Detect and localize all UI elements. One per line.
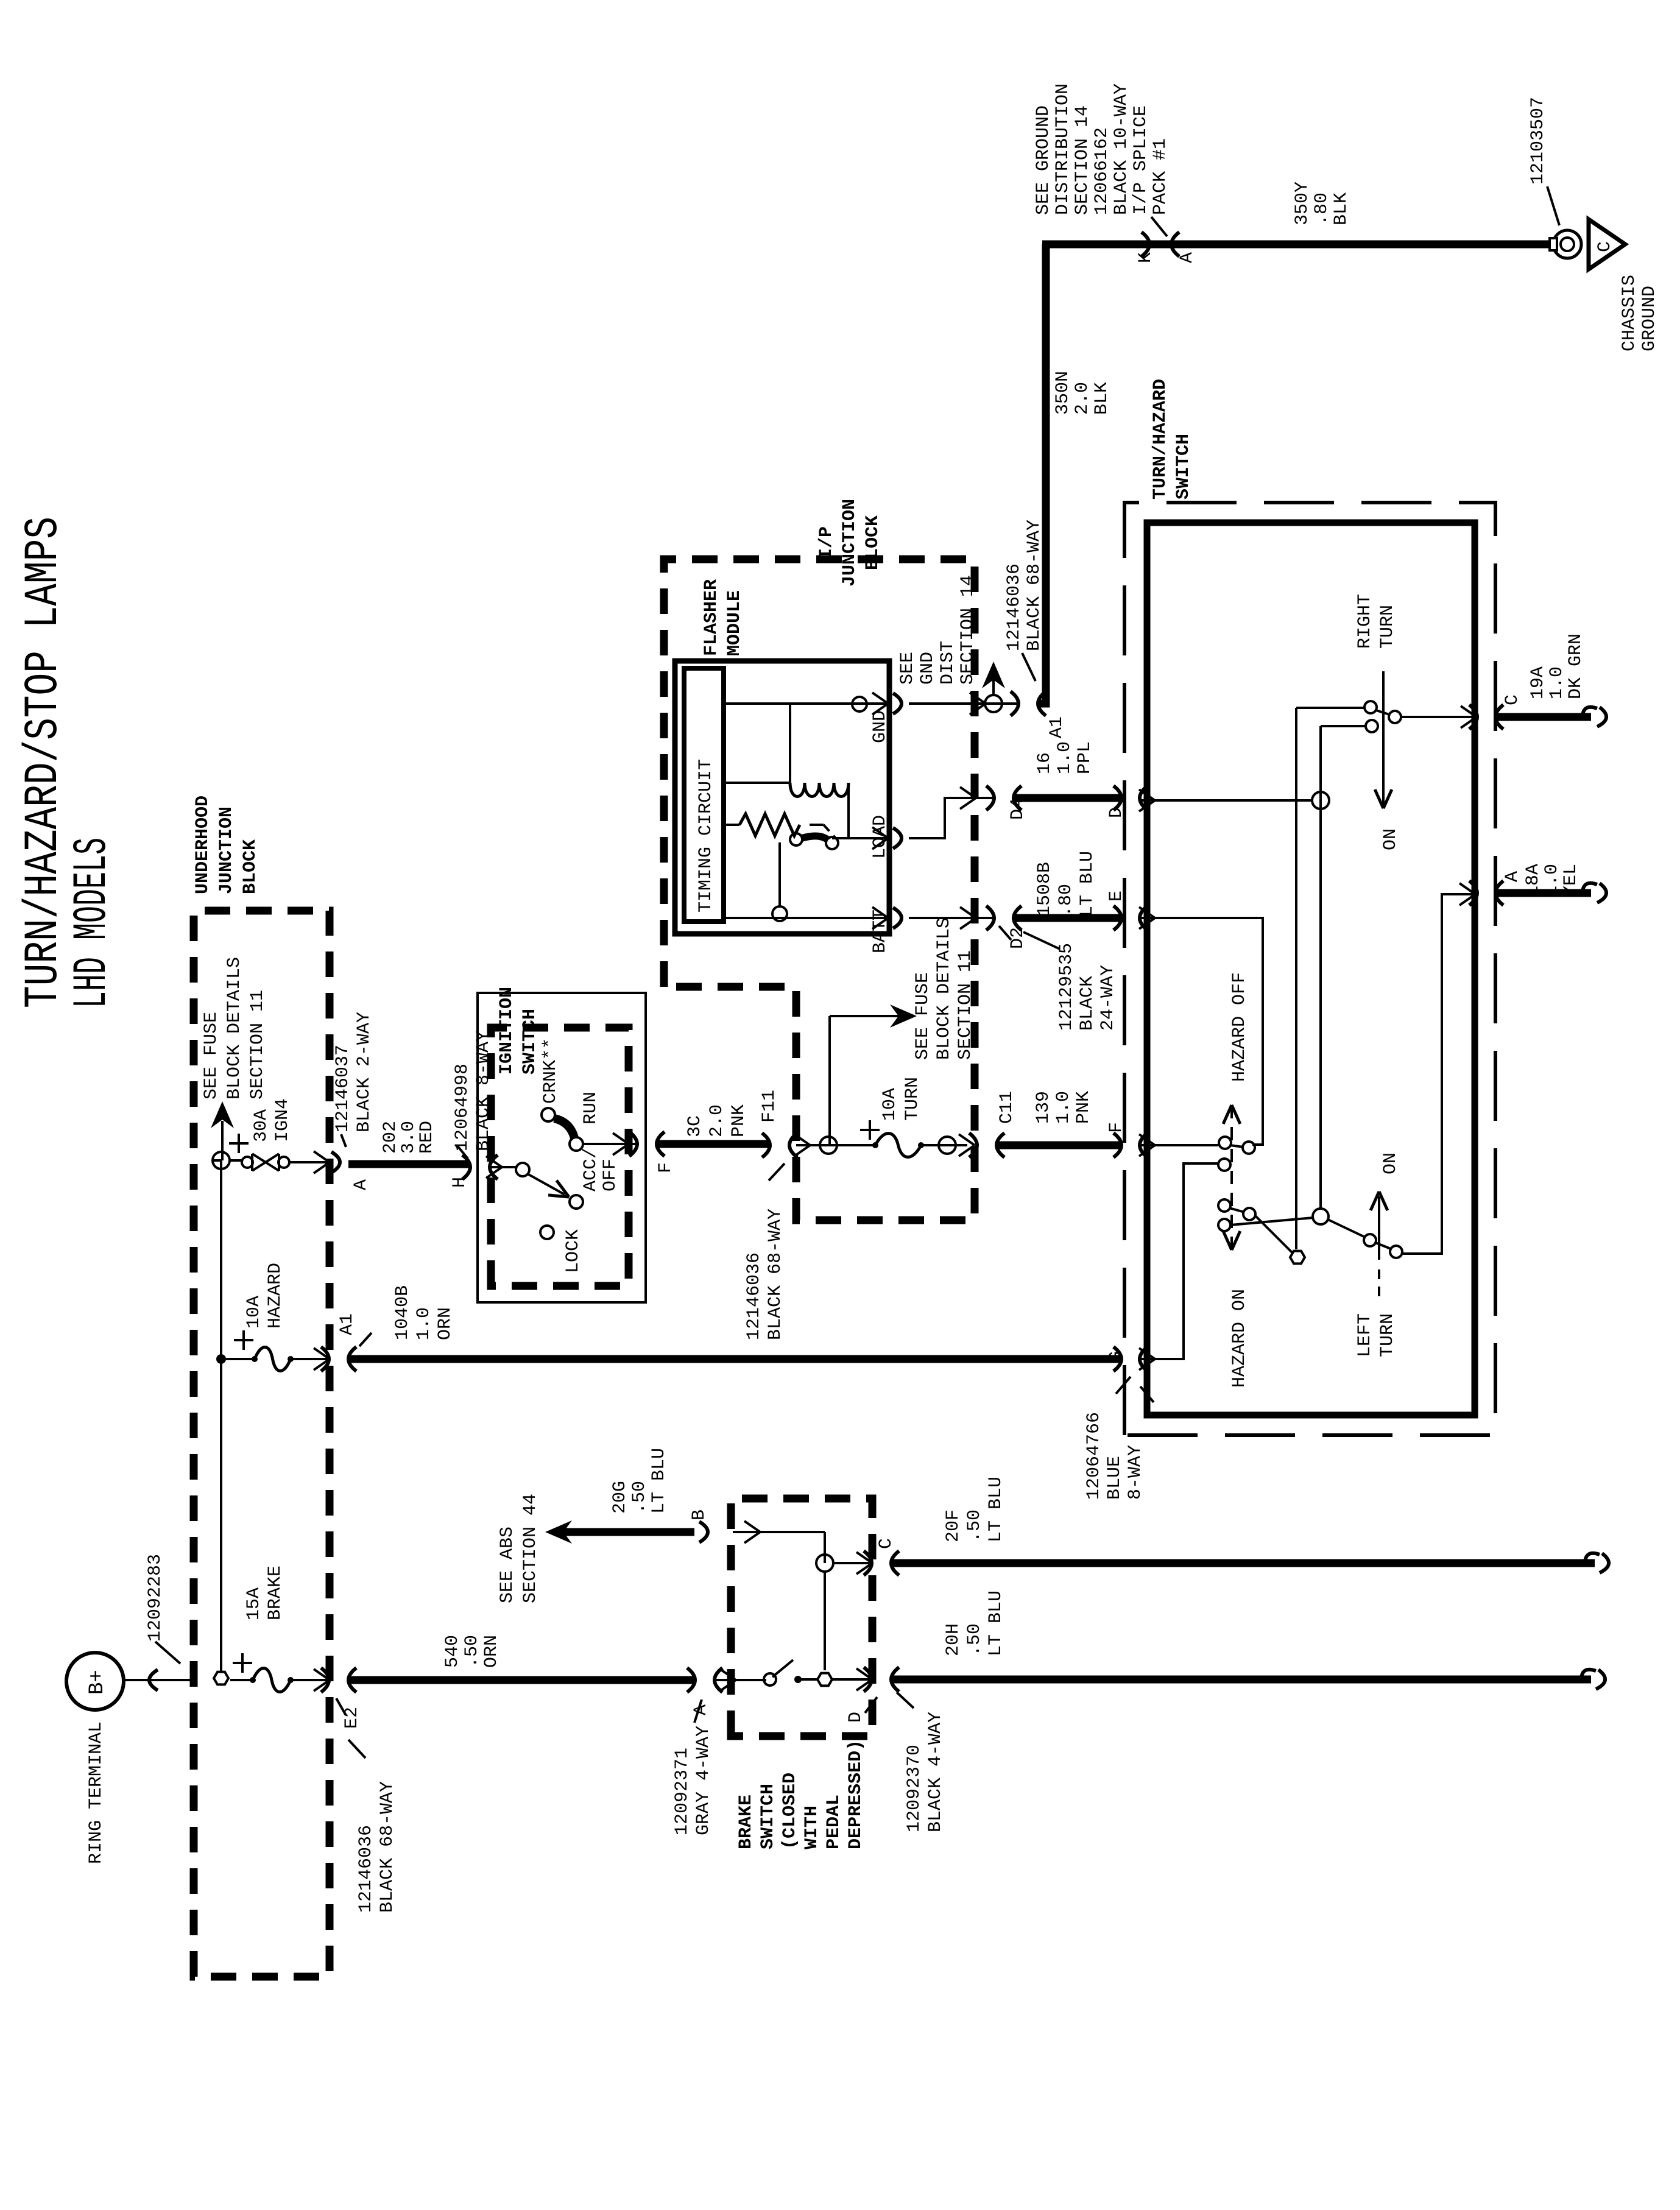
label 30A IGN4 bbox=[251, 1098, 293, 1142]
wire 139 PNK bbox=[997, 1142, 1121, 1149]
wire F internal bbox=[1139, 1134, 1218, 1156]
splice hexagon turn feed bbox=[1255, 708, 1305, 1263]
svg-text:10A: 10A bbox=[880, 1088, 900, 1121]
connector C11 bbox=[969, 1091, 1017, 1157]
label 139 1.0 PNK bbox=[1033, 1091, 1094, 1124]
ignition switch outer box bbox=[478, 993, 646, 1302]
label 12092371 GRAY 4-WAY bbox=[672, 1700, 714, 1835]
svg-text:SECTION 11: SECTION 11 bbox=[955, 950, 976, 1060]
svg-text:ORN: ORN bbox=[435, 1307, 456, 1340]
label TIMING CIRCUIT bbox=[696, 759, 716, 913]
svg-text:2.0: 2.0 bbox=[1072, 382, 1093, 415]
svg-text:TURN/HAZARD: TURN/HAZARD bbox=[1150, 379, 1171, 500]
svg-text:.50: .50 bbox=[462, 1635, 482, 1668]
svg-text:12129535: 12129535 bbox=[1056, 943, 1077, 1031]
svg-text:UNDERHOOD: UNDERHOOD bbox=[192, 796, 213, 894]
svg-text:1.0: 1.0 bbox=[414, 1307, 434, 1340]
wire fuse to C11 bbox=[921, 1134, 975, 1156]
svg-text:E2: E2 bbox=[342, 1707, 362, 1729]
label 350Y .80 BLK bbox=[1292, 182, 1352, 225]
flasher contact bbox=[790, 833, 838, 849]
svg-text:350Y: 350Y bbox=[1292, 182, 1313, 225]
fuse 30A IGN4 maxifuse bbox=[229, 1134, 329, 1171]
arrow to fuse block details bbox=[211, 1101, 234, 1160]
svg-text:.80: .80 bbox=[1056, 884, 1076, 917]
label I/P JUNCTION BLOCK bbox=[816, 499, 883, 587]
svg-text:LT BLU: LT BLU bbox=[986, 1477, 1006, 1542]
wire 19A DK GRN bbox=[1496, 707, 1606, 727]
connector ign4 out bbox=[331, 1152, 372, 1190]
connector F switch bbox=[1106, 1122, 1148, 1157]
svg-text:TURN: TURN bbox=[1377, 605, 1398, 649]
svg-text:C: C bbox=[1595, 241, 1615, 252]
svg-text:I/P: I/P bbox=[816, 526, 837, 559]
hazard contacts bbox=[1218, 1137, 1255, 1231]
svg-text:12066162: 12066162 bbox=[1092, 127, 1112, 215]
svg-text:K: K bbox=[1135, 252, 1156, 263]
label 12092370 BLACK 4-WAY bbox=[897, 1692, 946, 1832]
wire 20G to ABS bbox=[563, 1528, 694, 1536]
brake switch contact bbox=[764, 1660, 872, 1686]
flasher pin labels bbox=[870, 710, 891, 953]
svg-text:TIMING CIRCUIT: TIMING CIRCUIT bbox=[696, 759, 716, 913]
svg-text:BRAKE: BRAKE bbox=[265, 1566, 286, 1620]
svg-text:BLOCK: BLOCK bbox=[240, 839, 261, 894]
svg-text:12092370: 12092370 bbox=[904, 1745, 925, 1832]
svg-text:SEE FUSE: SEE FUSE bbox=[912, 972, 933, 1060]
svg-text:C: C bbox=[1502, 694, 1523, 705]
svg-text:A1: A1 bbox=[1046, 716, 1067, 738]
svg-text:BRAKE: BRAKE bbox=[736, 1795, 757, 1849]
label RUN bbox=[581, 1092, 601, 1124]
label 20F .50 LT BLU bbox=[943, 1477, 1006, 1542]
svg-text:SEE ABS: SEE ABS bbox=[497, 1527, 518, 1603]
svg-text:F: F bbox=[655, 1162, 676, 1173]
svg-text:ON: ON bbox=[1380, 828, 1401, 850]
svg-text:BATT: BATT bbox=[870, 909, 891, 953]
svg-text:SWITCH: SWITCH bbox=[1173, 434, 1194, 500]
svg-text:B: B bbox=[689, 1509, 710, 1520]
svg-text:E: E bbox=[1106, 891, 1127, 902]
flasher connector gnd bbox=[893, 693, 1018, 715]
svg-text:1.0: 1.0 bbox=[1542, 864, 1562, 897]
svg-text:12064766: 12064766 bbox=[1084, 1412, 1104, 1500]
svg-text:LOAD: LOAD bbox=[870, 815, 891, 859]
connector D4 bbox=[986, 786, 1028, 820]
label FLASHER MODULE bbox=[701, 579, 745, 656]
label 3C 2.0 PNK bbox=[685, 1104, 749, 1137]
svg-text:SECTION 14: SECTION 14 bbox=[958, 575, 978, 685]
wire B+ to junction block bbox=[124, 1670, 195, 1690]
svg-text:ON: ON bbox=[1380, 1153, 1401, 1174]
svg-text:.80: .80 bbox=[1311, 192, 1332, 225]
svg-text:HAZARD OFF: HAZARD OFF bbox=[1229, 972, 1250, 1082]
connector C switch bbox=[1469, 694, 1523, 729]
wire D junction long bbox=[1312, 726, 1329, 1209]
hazard link arrow bbox=[1223, 1105, 1240, 1250]
ignition pivot bbox=[486, 1156, 529, 1178]
svg-text:12092371: 12092371 bbox=[672, 1748, 693, 1835]
svg-text:8-WAY: 8-WAY bbox=[1125, 1445, 1146, 1500]
svg-text:20H: 20H bbox=[943, 1623, 964, 1656]
svg-text:.50: .50 bbox=[964, 1623, 985, 1656]
svg-text:LT BLU: LT BLU bbox=[1077, 851, 1098, 917]
svg-text:CHASSIS: CHASSIS bbox=[1619, 275, 1640, 351]
left turn arrow bbox=[1371, 1153, 1401, 1296]
label 12103507 bbox=[1528, 97, 1559, 225]
svg-text:SECTION 44: SECTION 44 bbox=[520, 1494, 541, 1603]
svg-text:10A: 10A bbox=[244, 1296, 264, 1329]
svg-text:C: C bbox=[876, 1538, 897, 1549]
battery B+ ring terminal bbox=[66, 1653, 124, 1710]
flasher resistor bbox=[724, 814, 836, 838]
label SEE ABS SECTION 44 bbox=[497, 1494, 541, 1603]
svg-text:20F: 20F bbox=[943, 1509, 964, 1542]
svg-text:HAZARD: HAZARD bbox=[265, 1263, 286, 1329]
svg-text:.50: .50 bbox=[629, 1481, 650, 1514]
svg-text:GND: GND bbox=[917, 652, 938, 685]
svg-text:A: A bbox=[351, 1179, 372, 1190]
label 19A 1.0 DK GRN bbox=[1528, 634, 1586, 699]
svg-text:BLK: BLK bbox=[1331, 192, 1352, 225]
ignition LOCK contact bbox=[540, 1226, 554, 1239]
svg-text:12146036: 12146036 bbox=[1004, 563, 1025, 651]
svg-text:C11: C11 bbox=[997, 1091, 1017, 1124]
svg-text:TURN: TURN bbox=[902, 1077, 923, 1121]
fuse 10A HAZARD bbox=[234, 1330, 329, 1371]
svg-text:ACC/: ACC/ bbox=[581, 1148, 601, 1191]
label 18A 1.0 YEL bbox=[1523, 864, 1581, 897]
svg-text:A: A bbox=[1177, 252, 1198, 263]
svg-text:PPL: PPL bbox=[1075, 741, 1095, 774]
label 1508B .80 LT BLU bbox=[1034, 851, 1098, 917]
label 12129535 BLACK 24-WAY bbox=[1023, 932, 1118, 1031]
bus wire bbox=[220, 1160, 222, 1678]
right turn arrow bbox=[1375, 671, 1401, 850]
svg-text:12146036: 12146036 bbox=[744, 1252, 764, 1340]
wire 540 ORN bbox=[348, 1676, 694, 1684]
svg-text:OFF: OFF bbox=[600, 1159, 621, 1191]
svg-text:H: H bbox=[450, 1177, 470, 1188]
label 12064998 BLACK 8-WAY bbox=[452, 1031, 494, 1151]
junction circle left turn bbox=[1230, 1209, 1329, 1225]
arrow SEE GND DIST bbox=[982, 662, 1005, 695]
svg-text:SEE FUSE: SEE FUSE bbox=[201, 1012, 222, 1100]
turn hazard switch dashed box bbox=[1124, 503, 1495, 1435]
svg-text:12092283: 12092283 bbox=[145, 1554, 166, 1642]
connector A switch bbox=[1469, 871, 1523, 905]
label CHASSIS GROUND bbox=[1619, 275, 1660, 351]
svg-text:I/P SPLICE: I/P SPLICE bbox=[1131, 105, 1151, 215]
I/P junction block dashed outline bbox=[664, 559, 975, 1220]
label 20G .50 LT BLU bbox=[610, 1448, 669, 1514]
timing circuit box bbox=[684, 668, 724, 922]
connector E2 bbox=[321, 1668, 362, 1729]
svg-text:IGN4: IGN4 bbox=[272, 1098, 293, 1142]
wire 1040B ORN bbox=[348, 1355, 1120, 1363]
svg-text:ORN: ORN bbox=[481, 1635, 502, 1668]
svg-text:BLOCK DETAILS: BLOCK DETAILS bbox=[224, 957, 245, 1100]
svg-text:12103507: 12103507 bbox=[1528, 97, 1548, 185]
svg-text:SEE: SEE bbox=[897, 652, 918, 685]
svg-text:12064998: 12064998 bbox=[452, 1064, 473, 1151]
wire right turn to C bbox=[1401, 706, 1477, 728]
label 12092283 RING TERMINAL bbox=[86, 1554, 180, 1864]
connector D2 bbox=[986, 906, 1028, 949]
right turn contacts bbox=[1364, 701, 1401, 732]
flasher connector batt bbox=[893, 907, 993, 929]
svg-text:A: A bbox=[691, 1704, 711, 1715]
wire 1508B LT BLU bbox=[1014, 914, 1121, 922]
brake switch dashed box bbox=[731, 1499, 872, 1736]
svg-text:RUN: RUN bbox=[581, 1092, 601, 1124]
connector A1 hazard bbox=[321, 1313, 372, 1371]
svg-text:(CLOSED: (CLOSED bbox=[780, 1773, 800, 1849]
label 12146036 BLACK 68-WAY at F11 bbox=[744, 1163, 786, 1340]
label IGNITION SWITCH bbox=[496, 987, 540, 1075]
svg-text:DEPRESSED): DEPRESSED) bbox=[845, 1740, 866, 1849]
ignition RUN contact bbox=[542, 1108, 583, 1151]
turn hazard switch solid box bbox=[1147, 523, 1475, 1415]
label SEE FUSE BLOCK DETAILS SECTION 11 ip bbox=[912, 917, 976, 1060]
svg-text:1508B: 1508B bbox=[1034, 862, 1055, 917]
branch arrow fuse details bbox=[830, 1004, 917, 1145]
svg-text:2.0: 2.0 bbox=[707, 1104, 727, 1137]
svg-text:20G: 20G bbox=[610, 1481, 630, 1514]
label SEE GND DIST SECTION 14 bbox=[897, 575, 978, 685]
wire right turn upper contact bbox=[1296, 707, 1364, 709]
fuse 15A BRAKE bbox=[233, 1653, 329, 1692]
svg-text:BLACK 68-WAY: BLACK 68-WAY bbox=[377, 1781, 398, 1913]
svg-text:F: F bbox=[1106, 1122, 1127, 1133]
svg-text:BLOCK DETAILS: BLOCK DETAILS bbox=[934, 917, 955, 1060]
svg-text:540: 540 bbox=[442, 1635, 463, 1668]
svg-text:139: 139 bbox=[1033, 1091, 1054, 1124]
wire G internal bbox=[1139, 1163, 1218, 1370]
label LOCK bbox=[563, 1229, 584, 1273]
wire B inside box bbox=[733, 1521, 825, 1563]
svg-text:PEDAL: PEDAL bbox=[824, 1795, 844, 1849]
label 16 1.0 PPL bbox=[1034, 741, 1095, 774]
connector D brake bbox=[845, 1667, 899, 1723]
label LEFT TURN bbox=[1355, 1313, 1398, 1357]
svg-text:GND: GND bbox=[870, 710, 891, 743]
svg-text:D: D bbox=[1106, 807, 1127, 818]
svg-text:F11: F11 bbox=[759, 1090, 780, 1123]
svg-text:JUNCTION: JUNCTION bbox=[839, 499, 860, 587]
title line 1 bbox=[17, 517, 71, 1008]
svg-text:19A: 19A bbox=[1528, 666, 1548, 699]
junction circle ign4 bbox=[213, 1152, 242, 1169]
svg-text:16: 16 bbox=[1034, 752, 1055, 774]
label UNDERHOOD JUNCTION BLOCK bbox=[192, 796, 261, 894]
label BRAKE SWITCH (CLOSED WITH PEDAL DEPRESSED) bbox=[736, 1740, 866, 1849]
svg-text:RED: RED bbox=[417, 1121, 437, 1154]
svg-text:.50: .50 bbox=[964, 1509, 985, 1542]
svg-text:BLACK 68-WAY: BLACK 68-WAY bbox=[765, 1209, 786, 1340]
wire into F11 fuse bbox=[794, 1134, 875, 1156]
svg-text:DIST: DIST bbox=[937, 641, 958, 685]
underhood junction block dashed box bbox=[194, 911, 330, 1977]
flasher boundary arrows bbox=[872, 693, 888, 929]
svg-text:LT BLU: LT BLU bbox=[986, 1590, 1006, 1656]
svg-text:A1: A1 bbox=[337, 1313, 358, 1335]
svg-text:D: D bbox=[845, 1712, 866, 1723]
svg-text:SEE GROUND: SEE GROUND bbox=[1033, 105, 1054, 215]
flasher coil bbox=[724, 783, 888, 838]
svg-text:SWITCH: SWITCH bbox=[758, 1784, 778, 1849]
svg-text:SECTION 14: SECTION 14 bbox=[1072, 105, 1093, 215]
svg-text:RING TERMINAL: RING TERMINAL bbox=[86, 1721, 107, 1864]
svg-text:IGNITION: IGNITION bbox=[496, 987, 517, 1075]
label ground distribution block bbox=[1033, 83, 1171, 236]
svg-text:CRNK**: CRNK** bbox=[540, 1038, 561, 1104]
label 540 .50 ORN bbox=[442, 1635, 502, 1668]
connector E switch bbox=[1106, 891, 1148, 930]
label 10A HAZARD bbox=[244, 1263, 286, 1329]
wire 20F LT BLU bbox=[891, 1553, 1609, 1573]
svg-text:1.0: 1.0 bbox=[1054, 741, 1075, 774]
ground wire 350N bbox=[1037, 244, 1555, 704]
svg-text:1040B: 1040B bbox=[392, 1285, 413, 1340]
flasher connector load bbox=[893, 787, 993, 849]
svg-text:JUNCTION: JUNCTION bbox=[216, 807, 237, 894]
wire left turn to A bbox=[1402, 883, 1475, 1254]
flasher gnd line bbox=[724, 697, 888, 783]
splice hexagon brake out bbox=[817, 1572, 832, 1686]
svg-text:BLUE: BLUE bbox=[1104, 1456, 1125, 1500]
title line 2 bbox=[66, 838, 119, 1008]
svg-text:BLACK 2-WAY: BLACK 2-WAY bbox=[354, 1012, 375, 1132]
flasher batt line bbox=[724, 842, 888, 921]
label 20H .50 LT BLU bbox=[943, 1590, 1006, 1656]
label 10A TURN bbox=[880, 1077, 923, 1121]
wire 18A YEL bbox=[1496, 883, 1606, 903]
svg-text:G: G bbox=[1106, 1351, 1127, 1362]
svg-text:BLOCK: BLOCK bbox=[863, 515, 883, 570]
boundary arrows brake out bbox=[856, 1552, 872, 1690]
label CRNK** bbox=[540, 1038, 561, 1104]
label 202 3.0 RED bbox=[380, 1121, 437, 1154]
svg-text:30A: 30A bbox=[251, 1109, 272, 1142]
svg-text:GROUND: GROUND bbox=[1639, 286, 1660, 351]
svg-text:TURN: TURN bbox=[1377, 1313, 1398, 1357]
connector A1 bbox=[1011, 691, 1067, 738]
svg-text:BLACK: BLACK bbox=[1077, 976, 1098, 1031]
wire D internal bbox=[1139, 789, 1312, 811]
ignition F output bbox=[583, 1132, 676, 1173]
svg-text:B+: B+ bbox=[86, 1670, 109, 1695]
svg-text:SWITCH: SWITCH bbox=[520, 1009, 540, 1075]
svg-text:1.0: 1.0 bbox=[1053, 1091, 1074, 1124]
svg-text:3C: 3C bbox=[685, 1115, 705, 1137]
wire 16 PPL bbox=[1014, 794, 1121, 802]
svg-text:LHD MODELS: LHD MODELS bbox=[66, 838, 119, 1008]
wire E internal bbox=[1139, 907, 1263, 1145]
label 350N 2.0 BLK bbox=[1053, 371, 1112, 415]
junction circle C out bbox=[816, 1555, 871, 1572]
svg-text:PNK: PNK bbox=[729, 1104, 749, 1137]
svg-text:BLK: BLK bbox=[1092, 382, 1112, 415]
chassis ground symbol bbox=[1589, 219, 1625, 269]
svg-text:BLACK 68-WAY: BLACK 68-WAY bbox=[1024, 520, 1045, 651]
fuse 10A TURN bbox=[860, 1120, 924, 1157]
label 1040B 1.0 ORN bbox=[392, 1285, 456, 1340]
svg-text:LOCK: LOCK bbox=[563, 1229, 584, 1273]
label HAZARD OFF bbox=[1229, 972, 1250, 1082]
label 12146037 BLACK 2-WAY bbox=[333, 1012, 375, 1147]
svg-text:18A: 18A bbox=[1523, 864, 1544, 897]
svg-text:RIGHT: RIGHT bbox=[1355, 594, 1375, 649]
label 15A BRAKE bbox=[244, 1566, 286, 1620]
arrow SEE ABS bbox=[545, 1520, 572, 1544]
connector G bbox=[1106, 1347, 1154, 1402]
svg-text:A: A bbox=[1502, 871, 1523, 882]
connector B brake switch bbox=[689, 1509, 710, 1542]
label 12146036 BLACK 68-WAY at E2 bbox=[348, 1740, 398, 1913]
wire 202 RED bbox=[348, 1160, 470, 1168]
ignition arrow to ACC/OFF bbox=[528, 1174, 583, 1209]
boundary arrows fuses bbox=[314, 1151, 330, 1691]
wire 20H LT BLU bbox=[891, 1670, 1605, 1689]
flasher module box bbox=[675, 661, 889, 934]
svg-text:1.0: 1.0 bbox=[1547, 666, 1567, 699]
connector H ignition bbox=[450, 1145, 498, 1188]
svg-text:350N: 350N bbox=[1053, 371, 1073, 415]
svg-text:BLACK 10-WAY: BLACK 10-WAY bbox=[1111, 83, 1132, 215]
svg-text:PACK #1: PACK #1 bbox=[1150, 138, 1171, 215]
label 12146036 BLACK 68-WAY at A1 bbox=[1004, 520, 1045, 681]
svg-text:24-WAY: 24-WAY bbox=[1098, 965, 1118, 1031]
label SEE FUSE BLOCK DETAILS SECTION 11 bbox=[201, 957, 268, 1100]
connector A brake switch bbox=[687, 1668, 722, 1715]
svg-text:YEL: YEL bbox=[1561, 864, 1581, 897]
inline connector K A bbox=[1135, 232, 1198, 263]
svg-text:DISTRIBUTION: DISTRIBUTION bbox=[1053, 83, 1073, 215]
label 12064766 BLUE 8-WAY bbox=[1084, 1377, 1146, 1500]
svg-text:PNK: PNK bbox=[1073, 1091, 1094, 1124]
svg-text:15A: 15A bbox=[244, 1587, 264, 1620]
svg-text:BLACK 4-WAY: BLACK 4-WAY bbox=[925, 1712, 946, 1832]
svg-text:DK GRN: DK GRN bbox=[1565, 634, 1586, 699]
connector D switch bbox=[1106, 786, 1148, 818]
svg-text:GRAY 4-WAY: GRAY 4-WAY bbox=[693, 1726, 714, 1835]
svg-text:3.0: 3.0 bbox=[398, 1121, 419, 1154]
junction dot hazard bbox=[216, 1354, 255, 1364]
svg-text:MODULE: MODULE bbox=[724, 590, 745, 656]
svg-text:12146036: 12146036 bbox=[356, 1825, 376, 1913]
left turn contacts bbox=[1328, 1220, 1402, 1258]
svg-text:FLASHER: FLASHER bbox=[701, 579, 722, 656]
svg-text:WITH: WITH bbox=[802, 1806, 822, 1849]
connector F11 bbox=[759, 1090, 797, 1157]
wire right turn lower contact bbox=[1321, 725, 1366, 727]
label HAZARD ON bbox=[1229, 1289, 1250, 1388]
svg-text:TURN/HAZARD/STOP LAMPS: TURN/HAZARD/STOP LAMPS bbox=[17, 517, 71, 1008]
wire 3C PNK bbox=[657, 1140, 769, 1148]
ring terminal bbox=[1550, 230, 1581, 258]
connector C brake bbox=[864, 1538, 899, 1575]
splice hexagon brake bbox=[214, 1672, 253, 1685]
label ACC/ OFF bbox=[581, 1148, 621, 1191]
svg-text:LEFT: LEFT bbox=[1355, 1313, 1375, 1357]
label TURN/HAZARD SWITCH bbox=[1150, 379, 1194, 500]
ignition switch dashed box bbox=[491, 1028, 629, 1286]
svg-text:SECTION 11: SECTION 11 bbox=[247, 990, 268, 1100]
label RIGHT TURN bbox=[1355, 594, 1398, 649]
wire A into box bbox=[714, 1669, 766, 1691]
svg-text:202: 202 bbox=[380, 1121, 401, 1154]
